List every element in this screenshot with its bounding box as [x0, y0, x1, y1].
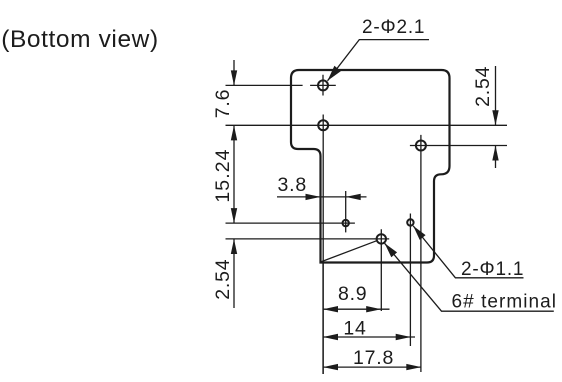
arrow left 8.9 [323, 306, 338, 312]
17.8 dimension line [323, 366, 421, 368]
svg-text:6# terminal: 6# terminal [452, 292, 558, 313]
svg-text:17.8: 17.8 [353, 347, 394, 369]
arrow left 17.8 [323, 364, 338, 370]
right dimension line vertical [495, 66, 497, 168]
arrow up below 7.6 [231, 125, 237, 140]
hole A (top-left mounting hole, 2.1mm) [318, 80, 328, 90]
arrow right 14 [396, 334, 411, 340]
label 6# terminal underline and leader [385, 243, 554, 311]
svg-text:2-Φ2.1: 2-Φ2.1 [362, 17, 425, 38]
hole C crosshair and vertical extension line [410, 135, 426, 372]
line from body corner to hole E [321, 241, 377, 262]
svg-text:2.54: 2.54 [212, 259, 234, 300]
arrow right 8.9 [366, 306, 381, 312]
arrow down at 15.24 bottom [231, 208, 237, 223]
arrow left 14 [323, 334, 338, 340]
relay body outline [291, 70, 450, 263]
left extension line hole A level [226, 84, 303, 86]
hole E (6# terminal hole) [377, 234, 386, 243]
left extension line hole D level [226, 222, 355, 224]
8.9 dimension line [323, 308, 390, 310]
svg-text:8.9: 8.9 [338, 283, 368, 305]
left dimension line vertical [233, 60, 235, 308]
arrow up below 2.54 left [231, 239, 237, 254]
arrow right at 3.8 left [306, 194, 321, 200]
svg-text:3.8: 3.8 [278, 174, 308, 196]
hole F vertical extension line [409, 214, 411, 347]
leader arrow at hole F [413, 226, 425, 240]
label 2-phi2.1 underline and leader [328, 40, 430, 81]
3.8 dimension line [277, 196, 367, 198]
left extension line hole E level [226, 238, 375, 240]
hole D vertical extension line [345, 191, 347, 232]
leader arrow at hole A [328, 66, 341, 81]
svg-text:(Bottom view): (Bottom view) [1, 26, 159, 53]
svg-text:2-Φ1.1: 2-Φ1.1 [461, 259, 524, 280]
hole E crosshair and vertical extension line [374, 229, 389, 311]
extension line hole B level (spans to right dim) [226, 124, 508, 126]
bottom extension line left (from body corner) [322, 263, 324, 374]
hole F (small 1.1mm hole right) [407, 219, 413, 225]
hole D (small 1.1mm hole left) [343, 220, 349, 226]
label 2-phi1.1 underline and leader [413, 226, 523, 278]
14 dimension line [323, 336, 415, 338]
arrow down at 2.54 right top [492, 110, 498, 125]
hole A crosshair [310, 75, 336, 96]
extension line hole C level (right dim) [426, 145, 507, 147]
hole B (left coil hole) [318, 120, 328, 130]
hole C (right coil hole) [416, 141, 426, 151]
arrow down at 7.6 top [231, 70, 237, 85]
svg-text:7.6: 7.6 [212, 89, 234, 119]
leader arrow at hole E [385, 243, 398, 257]
arrow right 17.8 [406, 364, 421, 370]
svg-text:15.24: 15.24 [212, 148, 234, 202]
arrow up at 2.54 right bottom [492, 146, 498, 161]
svg-text:14: 14 [343, 317, 366, 339]
hole B vertical extension line [322, 115, 324, 375]
arrow left at 3.8 right [346, 194, 361, 200]
svg-text:2.54: 2.54 [472, 66, 494, 107]
